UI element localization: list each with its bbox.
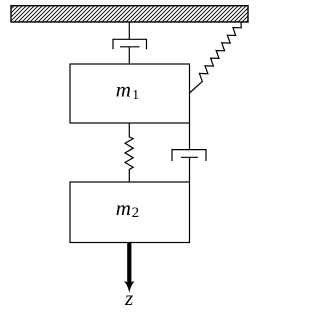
damper D2 piston plate	[181, 156, 198, 158]
diagonal spring K1	[190, 22, 242, 93]
damper D1 rod upper	[128, 22, 130, 39]
arrow z shaft	[127, 243, 131, 283]
damper D1 rod lower	[128, 47, 130, 64]
middle spring K2	[125, 123, 133, 182]
damper D1 piston plate	[120, 46, 140, 48]
damper D1 cylinder	[113, 39, 147, 49]
damper D2 rod upper	[189, 123, 191, 150]
mass m2 box	[70, 182, 190, 243]
svg-text:m1: m1	[116, 77, 139, 103]
damper D2 cylinder	[172, 150, 206, 161]
arrow z head	[124, 281, 135, 293]
damper D2 rod lower	[189, 157, 191, 182]
ceiling (fixed support, hatched)	[11, 6, 248, 22]
mass m1 box	[70, 64, 190, 123]
svg-text:m2: m2	[116, 196, 139, 221]
svg-text:z: z	[124, 286, 133, 310]
